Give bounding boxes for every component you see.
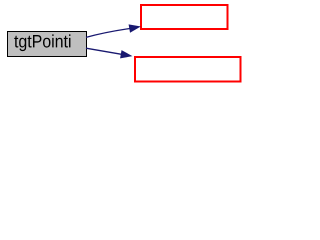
wire (upper edge shaft) [86,29,130,38]
node tgtPointi (current node, grey) [8,32,87,57]
label "tgtPointi" [14,34,70,51]
wire (lower edge shaft) [86,48,122,54]
node top-right (truncated, red) [141,5,228,29]
node bottom-right (truncated, red) [135,57,241,82]
edge: tgtPointi -> bottom node [86,48,131,58]
arrowhead (lower edge) [121,51,131,58]
arrowhead (upper edge) [129,25,139,32]
edge: tgtPointi -> top node [86,25,140,37]
